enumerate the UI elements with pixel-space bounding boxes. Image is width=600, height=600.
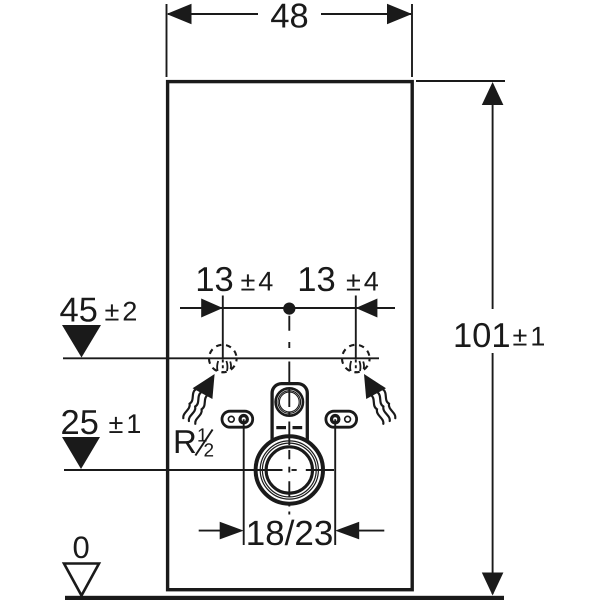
dim 18/23: left leader line xyxy=(199,530,221,532)
panel outline (module front) xyxy=(168,82,413,590)
offset dim 13 left: tolerance label xyxy=(241,272,272,291)
level 25: value label xyxy=(62,410,97,434)
vertical center line lower part (dash-dot) xyxy=(288,481,290,514)
height dim 101: tolerance label xyxy=(513,327,544,346)
outlet bend: inner thick ring xyxy=(266,447,312,493)
drain fixture: flange plate xyxy=(272,384,307,450)
width dim 48: left arrowhead xyxy=(167,4,192,24)
height dim 101: bottom arrowhead xyxy=(482,573,504,596)
level 25: filled level triangle xyxy=(62,437,100,469)
width dim 48: value label xyxy=(271,3,307,27)
left flow arrow wavy lines xyxy=(195,395,208,424)
offset dim 13 right: arrowhead pointing left xyxy=(356,299,378,318)
offset dim 13 right: tolerance label xyxy=(347,272,378,291)
dim 18/23: right extension line xyxy=(334,419,336,545)
offset dim: center reference dot xyxy=(283,303,295,315)
level 0: value label xyxy=(74,536,89,558)
left water connection: dashed circle xyxy=(209,345,237,373)
drain fixture: upper pipe ring inner xyxy=(279,392,299,412)
level 0: open datum triangle xyxy=(64,564,99,596)
level 25: level line left segment xyxy=(64,469,283,471)
offset dim 13 right: value label xyxy=(300,267,334,291)
height dim 101: dimension line upper segment xyxy=(492,84,494,309)
level 45: filled level triangle xyxy=(62,325,101,358)
width dim 48: right arrowhead xyxy=(387,4,412,24)
outlet bend: white base disc xyxy=(254,434,325,505)
right water connection: spray marks xyxy=(350,361,364,371)
left anchor plate: small hole xyxy=(228,416,234,422)
dim 18/23: value label xyxy=(248,520,331,546)
drain fixture: left mounting bar xyxy=(276,426,286,429)
outlet bend: ring 2 xyxy=(260,441,318,499)
offset dim 13 left: arrowhead pointing right xyxy=(201,299,223,318)
offset dim 13 right: extension line xyxy=(355,296,357,358)
offset dim 13 left: value label xyxy=(198,267,232,291)
ground line xyxy=(65,596,504,600)
level 25: center dash right of circle center xyxy=(292,469,297,471)
level 45: tolerance label xyxy=(105,302,136,321)
outlet bend: outer ring xyxy=(256,436,323,503)
left water connection: spray marks xyxy=(217,361,231,371)
width dim 48: dimension line right segment xyxy=(321,13,411,15)
right flow arrow wavy lines xyxy=(371,395,384,424)
offset dim 13 left: extension line xyxy=(222,296,224,358)
drain fixture: right mounting bar xyxy=(293,426,303,429)
offset dim 13 right: extension line dashed inside circle xyxy=(355,360,357,373)
vertical center line: center dash of crosshair xyxy=(288,467,290,473)
height dim 101: value label xyxy=(456,323,509,347)
dim 18/23: left extension line xyxy=(243,419,245,545)
right anchor plate: bolt hole ring xyxy=(330,414,341,425)
width dim 48: right extension line xyxy=(411,4,413,77)
height dim 101: top extension line xyxy=(416,80,505,82)
offset dim 13 left: extension line dashed inside circle xyxy=(222,360,224,373)
dim 18/23: left arrowhead xyxy=(220,522,244,540)
drain fixture: upper pipe ring middle xyxy=(278,391,301,414)
level 45: level line xyxy=(63,357,379,359)
right anchor plate: oval xyxy=(326,411,357,427)
left flow arrow head xyxy=(193,374,215,399)
R1/2 thread label xyxy=(176,428,213,456)
outlet bend: ring 3 xyxy=(262,443,316,497)
level 45: value label xyxy=(60,298,96,322)
height dim 101: dimension line lower segment xyxy=(492,353,494,594)
right water connection: dashed circle xyxy=(342,345,370,373)
right flow arrow head xyxy=(364,374,386,399)
drain fixture: upper pipe ring outer xyxy=(276,388,303,415)
vertical center line upper part (dash-dot) xyxy=(288,316,290,459)
level 25: tolerance label xyxy=(109,414,140,433)
width dim 48: dimension line left segment xyxy=(168,13,258,15)
offset dim 13/13: dimension line xyxy=(180,307,395,309)
level 25: level line right segment xyxy=(306,469,334,471)
height dim 101: top arrowhead xyxy=(482,82,504,105)
left anchor plate: oval xyxy=(222,411,253,427)
dim 18/23: right arrowhead xyxy=(335,522,359,540)
dim 18/23: right leader line xyxy=(358,530,384,532)
width dim 48: left extension line xyxy=(166,4,168,77)
right anchor plate: small hole xyxy=(345,416,351,422)
left anchor plate: bolt hole ring xyxy=(238,414,249,425)
